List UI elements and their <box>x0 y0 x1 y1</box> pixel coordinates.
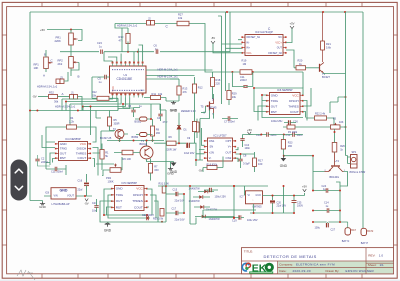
wire mid connectors <box>160 104 166 186</box>
svg-text:C12: C12 <box>256 133 261 137</box>
svg-text:COUT: COUT <box>78 156 87 160</box>
resistor R14 right column <box>192 122 196 132</box>
svg-text:R12: R12 <box>198 86 203 90</box>
svg-text:OUT: OUT <box>225 150 231 154</box>
capacitor C18 <box>209 188 211 192</box>
svg-text:BF245: BF245 <box>209 105 217 109</box>
wire IC3 out to R20 <box>286 50 296 68</box>
svg-text:2020-09-30: 2020-09-30 <box>293 269 311 273</box>
svg-text:BAT2: BAT2 <box>367 230 374 233</box>
diode D6 <box>202 215 205 219</box>
svg-text:V-: V- <box>209 156 212 160</box>
diode D1 zener <box>177 126 181 130</box>
svg-text:GND: GND <box>60 188 68 192</box>
resistor R5 <box>108 117 112 126</box>
svg-text:220: 220 <box>216 81 221 85</box>
resistor R13 <box>177 86 181 95</box>
svg-text:IC3 UA741QP: IC3 UA741QP <box>255 30 273 34</box>
svg-text:OUT: OUT <box>60 151 67 155</box>
svg-text:C16: C16 <box>78 180 83 183</box>
svg-text:A: A <box>62 92 64 96</box>
svg-text:36k: 36k <box>54 100 59 104</box>
transistor T3 BC327 <box>319 64 321 72</box>
svg-text:10k: 10k <box>232 95 237 99</box>
svg-text:Date:: Date: <box>279 269 286 273</box>
svg-text:L79L05ABZ-AP: L79L05ABZ-AP <box>52 202 70 206</box>
svg-text:100n: 100n <box>297 133 303 137</box>
ground mid <box>166 100 179 102</box>
svg-text:IN-: IN- <box>246 41 249 44</box>
diode D3 <box>199 195 202 199</box>
svg-text:Drawn By:: Drawn By: <box>326 269 340 273</box>
svg-text:P2 100k: P2 100k <box>288 131 298 134</box>
ground IC1 area <box>170 162 172 167</box>
svg-text:100u: 100u <box>315 227 321 230</box>
svg-text:-5V: -5V <box>198 169 202 173</box>
wires filter field <box>158 186 240 224</box>
navigation pill widget <box>11 160 28 201</box>
svg-text:220R 1W: 220R 1W <box>166 148 177 152</box>
wire U1 right mid <box>146 76 195 80</box>
svg-text:150: 150 <box>154 168 159 172</box>
junction dots IC6 <box>261 94 263 96</box>
svg-text:IC7: IC7 <box>240 196 245 199</box>
svg-text:DISCH: DISCH <box>289 99 299 103</box>
svg-text:BAT P: BAT P <box>361 241 369 245</box>
resistor R26 <box>332 143 337 153</box>
svg-text:220n: 220n <box>271 133 277 137</box>
svg-text:EDSON WAGNER: EDSON WAGNER <box>346 269 375 273</box>
svg-text:GND: GND <box>104 229 112 233</box>
wire mid horizontal net y53 <box>60 12 230 52</box>
svg-text:VIN: VIN <box>54 195 58 198</box>
resistor R30 <box>160 209 164 217</box>
svg-text:-5V: -5V <box>32 95 36 99</box>
resistor R17 <box>253 158 257 167</box>
svg-text:↓: ↓ <box>252 199 253 202</box>
resistor R18 <box>211 78 215 87</box>
svg-text:22uf 16V: 22uf 16V <box>175 219 185 222</box>
svg-text:PR2: PR2 <box>106 176 112 180</box>
wire U1 right to R18 <box>146 69 213 71</box>
IC5 surrounding wires <box>100 189 154 222</box>
ground T1 area <box>147 159 174 163</box>
svg-text:RST: RST <box>60 156 66 160</box>
svg-text:BAT N: BAT N <box>342 239 350 243</box>
capacitor C19 <box>238 215 240 219</box>
svg-text:NC: NC <box>278 36 282 39</box>
U1 top bundle wires <box>104 45 143 61</box>
regulator IC8 L79L05 <box>51 188 76 199</box>
svg-text:100n: 100n <box>245 147 251 150</box>
transistor T5 BF245 JFET <box>209 102 211 111</box>
wire J2 net <box>115 24 205 52</box>
svg-text:THRES: THRES <box>288 104 299 108</box>
capacitor C25 <box>292 201 297 203</box>
svg-text:180: 180 <box>288 145 293 148</box>
svg-text:RP2: RP2 <box>58 59 64 63</box>
IC IC5 NE555P <box>115 186 145 211</box>
svg-text:10K: 10K <box>34 66 39 70</box>
svg-text:R32: R32 <box>49 91 54 95</box>
svg-text:1/1: 1/1 <box>380 263 385 267</box>
svg-text:DISCH: DISCH <box>133 193 143 197</box>
svg-text:R31 3.9K: R31 3.9K <box>159 182 170 185</box>
resistor R6 <box>122 150 133 155</box>
capacitor C10b <box>243 135 250 148</box>
svg-text:HDR-M-2.54_1x1: HDR-M-2.54_1x1 <box>117 24 138 28</box>
svg-text:+5V: +5V <box>302 185 307 189</box>
svg-text:GND: GND <box>280 164 288 168</box>
IC6 surrounding wires <box>254 88 303 121</box>
svg-text:22uf 16V: 22uf 16V <box>175 200 185 203</box>
svg-text:GND: GND <box>167 172 175 176</box>
svg-text:THRES: THRES <box>132 199 143 203</box>
svg-text:BOB2: BOB2 <box>132 136 139 139</box>
svg-text:1.2k: 1.2k <box>69 119 75 123</box>
svg-text:R19: R19 <box>242 59 247 63</box>
wire right of J1 down <box>83 107 91 136</box>
svg-text:REV:: REV: <box>368 254 375 258</box>
svg-text:R30 3.9k: R30 3.9k <box>153 217 164 220</box>
junction IC5 <box>103 214 105 216</box>
svg-text:1N4007W: 1N4007W <box>209 218 221 221</box>
svg-text:C2: C2 <box>41 157 45 161</box>
svg-text:C17: C17 <box>172 208 177 211</box>
svg-text:BD140G: BD140G <box>330 176 340 179</box>
ground R23 <box>281 158 287 161</box>
regulator IC7 LM7805 <box>246 191 263 204</box>
svg-text:+5V: +5V <box>247 128 252 132</box>
svg-text:-2N: -2N <box>209 145 214 149</box>
resistor R12 right <box>192 84 196 93</box>
svg-text:100: 100 <box>258 162 263 166</box>
svg-text:HDR-M-2.54_1x1: HDR-M-2.54_1x1 <box>158 75 179 79</box>
svg-text:180: 180 <box>156 132 161 135</box>
svg-text:DISCH: DISCH <box>77 147 87 151</box>
svg-text:C19: C19 <box>232 220 237 223</box>
svg-text:¬T4: ¬T4 <box>335 160 340 163</box>
ground left bus <box>30 201 43 203</box>
svg-text:8Ohms 0.5W: 8Ohms 0.5W <box>350 170 366 174</box>
resistor R21 <box>321 41 325 50</box>
svg-text:V+: V+ <box>228 145 232 149</box>
capacitor C20 <box>270 200 275 202</box>
U1 top pin stubs <box>113 61 143 66</box>
svg-text:GND: GND <box>116 187 124 191</box>
svg-text:R11: R11 <box>152 92 157 96</box>
svg-text:RST: RST <box>271 110 277 114</box>
svg-text:5.6k: 5.6k <box>326 45 332 49</box>
svg-text:R6 100: R6 100 <box>123 157 132 161</box>
svg-text:OUT: OUT <box>271 104 278 108</box>
svg-text:R10: R10 <box>119 35 124 39</box>
svg-text:ON1: ON1 <box>209 139 215 143</box>
wire bottom distribution <box>96 131 196 224</box>
svg-text:RP1: RP1 <box>34 63 40 67</box>
svg-text:ELETRONICA sem FYM: ELETRONICA sem FYM <box>296 263 335 267</box>
wire IC7 output node <box>250 186 305 213</box>
battery BAT2 <box>361 228 367 235</box>
svg-text:GND: GND <box>170 109 178 113</box>
svg-text:R4: R4 <box>70 116 74 120</box>
svg-text:10k: 10k <box>158 92 163 96</box>
svg-text:Sheet:: Sheet: <box>368 263 377 267</box>
svg-text:HDR-M-2.54_1x1: HDR-M-2.54_1x1 <box>158 68 179 72</box>
resistor R16 <box>207 166 217 170</box>
svg-text:D: D <box>212 98 214 101</box>
svg-text:-5V: -5V <box>84 202 88 206</box>
svg-text:IC6 NE555P: IC6 NE555P <box>277 88 293 92</box>
svg-text:VCC+: VCC+ <box>275 41 282 44</box>
svg-text:GND: GND <box>39 205 47 209</box>
svg-text:COUT: COUT <box>290 110 299 114</box>
svg-text:THRES: THRES <box>76 151 87 155</box>
ground IC5 <box>107 222 109 223</box>
svg-text:100K: 100K <box>108 180 114 184</box>
svg-text:VCC: VCC <box>136 187 143 191</box>
svg-text:GND: GND <box>60 142 68 146</box>
node top bus <box>226 11 228 13</box>
svg-text:3-3pF: 3-3pF <box>243 162 250 166</box>
svg-text:22uf: 22uf <box>78 188 83 191</box>
svg-text:TRIG: TRIG <box>116 193 124 197</box>
resistor R11 <box>151 96 161 100</box>
svg-text:IC4 NE555P: IC4 NE555P <box>65 137 81 141</box>
resistor R8 <box>151 126 155 136</box>
svg-text:HDR-M-2.54_1x1: HDR-M-2.54_1x1 <box>37 85 58 89</box>
svg-text:CD4011BE: CD4011BE <box>117 77 133 81</box>
svg-text:220K: 220K <box>55 39 61 43</box>
U1 pin number rows <box>112 70 144 91</box>
svg-text:100v 25V: 100v 25V <box>247 219 258 222</box>
wire right vertical bus <box>362 12 364 222</box>
IC4 surrounding wires <box>42 135 55 165</box>
svg-text:TRIG: TRIG <box>271 99 279 103</box>
svg-text:47k: 47k <box>119 39 124 43</box>
svg-text:1.0: 1.0 <box>379 254 384 258</box>
wire C15 area <box>196 160 268 186</box>
svg-text:47nf: 47nf <box>163 121 168 124</box>
U1 bottom pin stubs <box>113 93 143 98</box>
EKO logo <box>242 263 274 275</box>
op-amp IC3 UA741QP <box>245 35 283 56</box>
svg-text:OFFSET_N2: OFFSET_N2 <box>268 52 282 55</box>
svg-text:10k: 10k <box>178 16 183 20</box>
title block <box>242 248 394 274</box>
svg-text:BC327: BC327 <box>322 75 330 79</box>
svg-text:VI: VI <box>248 194 251 197</box>
svg-text:330R: 330R <box>114 122 120 125</box>
svg-text:+2N: +2N <box>209 150 214 154</box>
svg-text:1M: 1M <box>243 62 247 66</box>
resistor R7 <box>148 164 152 174</box>
wires IC1 pins <box>196 110 255 163</box>
svg-text:100uf 25v: 100uf 25v <box>271 119 283 123</box>
diode D5 <box>200 205 203 209</box>
svg-text:IC8: IC8 <box>45 191 50 194</box>
svg-text:VCC: VCC <box>292 93 299 97</box>
svg-text:IC1 LF357: IC1 LF357 <box>213 134 227 138</box>
transistor T4 BD140G <box>331 165 340 167</box>
svg-text:DETECTOR DE METAIS: DETECTOR DE METAIS <box>264 254 317 259</box>
svg-text:-5V: -5V <box>211 36 215 40</box>
bottom-left pencil mark <box>17 270 35 280</box>
svg-text:TRIG: TRIG <box>60 147 68 151</box>
battery BAT1 <box>345 228 351 235</box>
op-amp IC1 LF357 <box>208 138 233 161</box>
node left bus junctions <box>29 110 31 112</box>
svg-text:BC327-25: BC327-25 <box>100 137 112 140</box>
svg-text:2K2: 2K2 <box>58 62 63 66</box>
svg-text:BAT: BAT <box>351 229 356 232</box>
svg-text:OUT: OUT <box>116 199 123 203</box>
resistor R23 <box>281 140 285 150</box>
IC IC4 NE555P <box>59 142 88 161</box>
svg-text:C23: C23 <box>97 41 102 45</box>
svg-text:GVO: GVO <box>256 194 261 197</box>
U1 left wires bundle <box>62 98 130 128</box>
svg-text:VCC-: VCC- <box>246 52 252 55</box>
power -5V IC8 <box>85 199 88 202</box>
svg-text:10uf 16V: 10uf 16V <box>184 151 195 155</box>
IC IC6 NE555P <box>270 93 301 115</box>
svg-text:10K: 10K <box>339 121 344 124</box>
wires left middle net <box>96 104 161 135</box>
resistor R15 left <box>195 122 199 132</box>
svg-text:OUT: OUT <box>277 47 283 50</box>
svg-text:VOUT: VOUT <box>67 195 74 198</box>
svg-text:100N: 100N <box>297 205 303 208</box>
svg-text:VCC: VCC <box>80 142 87 146</box>
svg-text:HDR-M-2.54_1x1: HDR-M-2.54_1x1 <box>55 105 76 109</box>
svg-text:RST: RST <box>116 205 122 209</box>
svg-text:BD911: BD911 <box>140 142 148 146</box>
svg-text:OPT: OPT <box>226 139 232 143</box>
svg-text:TITLE:: TITLE: <box>244 249 253 253</box>
svg-text:COUT: COUT <box>134 205 143 209</box>
svg-text:C11: C11 <box>240 75 245 79</box>
wire top +V bus <box>30 11 363 13</box>
svg-text:GND: GND <box>271 93 279 97</box>
svg-text:+5V: +5V <box>40 28 45 32</box>
svg-text:A: A <box>43 74 45 78</box>
svg-text:IN+: IN+ <box>246 47 250 50</box>
svg-text:+5V: +5V <box>289 22 294 26</box>
trimpot PR2 <box>110 168 121 173</box>
svg-text:Company:: Company: <box>279 263 293 267</box>
svg-text:220nf: 220nf <box>41 160 48 164</box>
svg-text:220nf: 220nf <box>240 78 247 82</box>
wire left vertical bus <box>30 12 118 201</box>
svg-text:47k: 47k <box>183 90 188 94</box>
svg-text:SP1: SP1 <box>352 151 357 154</box>
svg-text:C27: C27 <box>331 229 336 232</box>
svg-text:C15: C15 <box>173 189 178 192</box>
speaker SP1 <box>351 155 358 169</box>
transistor T1 BD911 <box>140 146 153 159</box>
svg-text:B: B <box>78 75 80 79</box>
svg-text:R22 2.4k: R22 2.4k <box>315 112 326 115</box>
wire y140 bus <box>107 141 164 147</box>
transistor T2 <box>115 130 124 139</box>
svg-text:OFFSET_N1: OFFSET_N1 <box>246 36 260 39</box>
IC U1 CD4011BE <box>110 66 147 93</box>
wire IC3 inputs <box>218 12 242 104</box>
svg-text:ZENER 3.3V: ZENER 3.3V <box>181 109 196 113</box>
svg-text:ON2: ON2 <box>226 156 232 160</box>
wire speaker bus <box>284 156 313 191</box>
resistor R29 <box>227 91 231 100</box>
resistor R1 left <box>100 150 104 160</box>
svg-text:100uf 25V: 100uf 25V <box>215 196 227 199</box>
svg-text:PR1: PR1 <box>56 36 62 40</box>
svg-text:22uf 16V: 22uf 16V <box>277 205 287 208</box>
svg-text:IC5 NE555P: IC5 NE555P <box>121 181 137 185</box>
svg-text:R16 820k: R16 820k <box>207 163 218 166</box>
